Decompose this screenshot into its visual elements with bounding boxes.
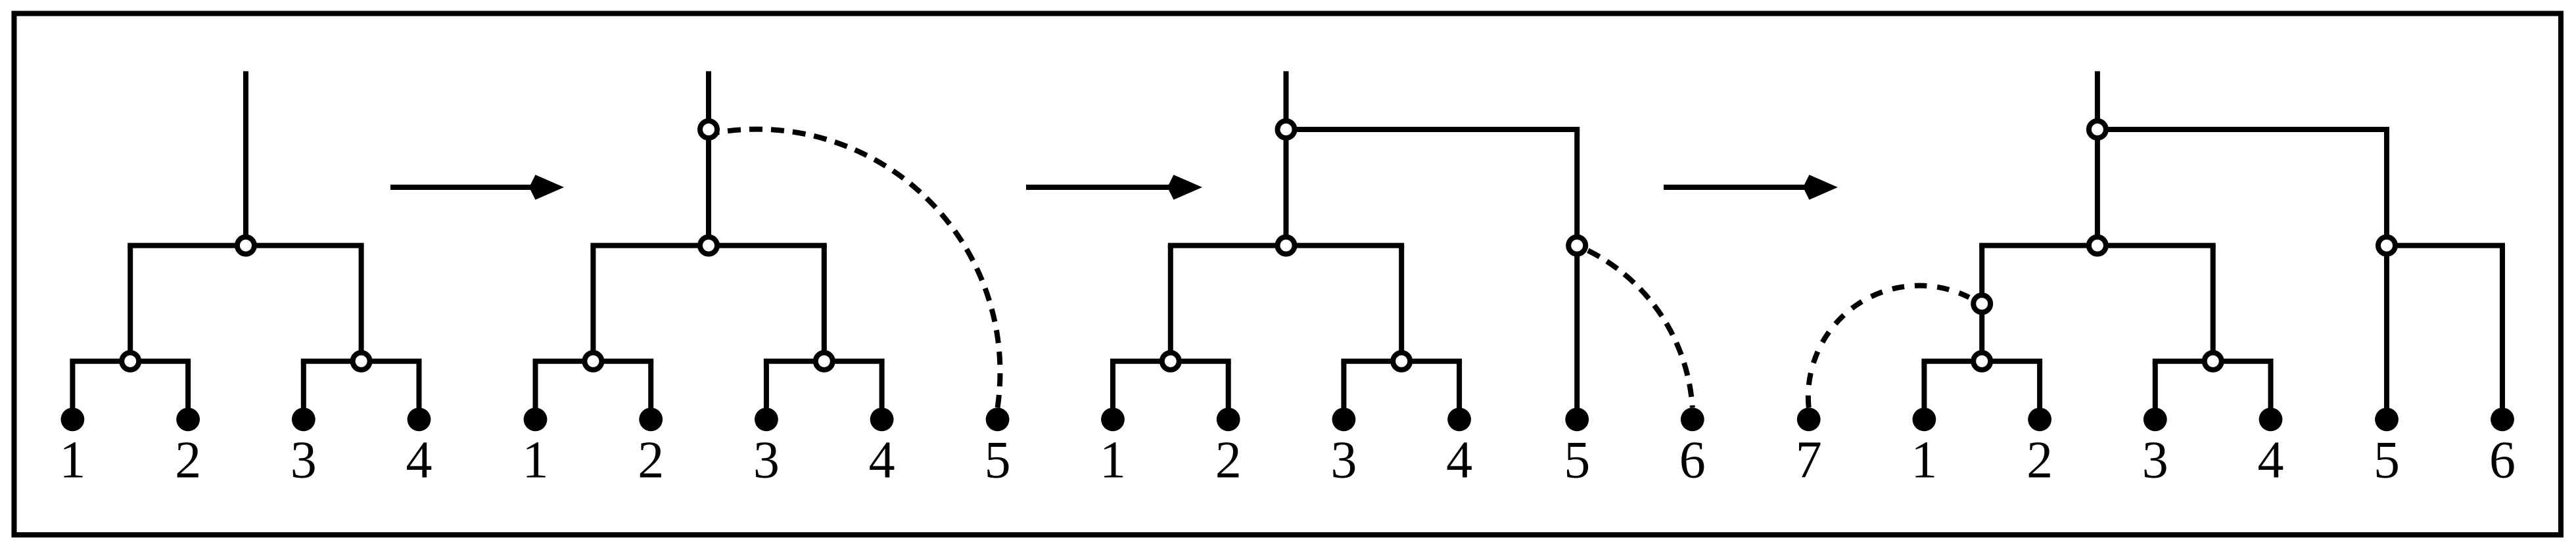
svg-text:5: 5 — [1564, 432, 1590, 490]
svg-text:4: 4 — [2258, 432, 2284, 490]
svg-text:3: 3 — [291, 432, 317, 490]
svg-text:7: 7 — [1796, 432, 1822, 490]
svg-text:3: 3 — [1330, 432, 1357, 490]
svg-text:4: 4 — [406, 432, 433, 490]
svg-text:3: 3 — [2142, 432, 2168, 490]
svg-text:3: 3 — [753, 432, 780, 490]
svg-text:1: 1 — [523, 432, 549, 490]
svg-text:5: 5 — [2374, 432, 2400, 490]
svg-text:4: 4 — [1446, 432, 1472, 490]
svg-text:2: 2 — [2026, 432, 2053, 490]
svg-text:2: 2 — [1215, 432, 1242, 490]
svg-text:6: 6 — [1679, 432, 1706, 490]
svg-text:6: 6 — [2489, 432, 2516, 490]
svg-text:5: 5 — [985, 432, 1011, 490]
svg-text:2: 2 — [638, 432, 664, 490]
svg-text:1: 1 — [1911, 432, 1937, 490]
svg-text:1: 1 — [59, 432, 85, 490]
svg-text:4: 4 — [869, 432, 895, 490]
svg-text:2: 2 — [175, 432, 201, 490]
svg-text:1: 1 — [1100, 432, 1126, 490]
